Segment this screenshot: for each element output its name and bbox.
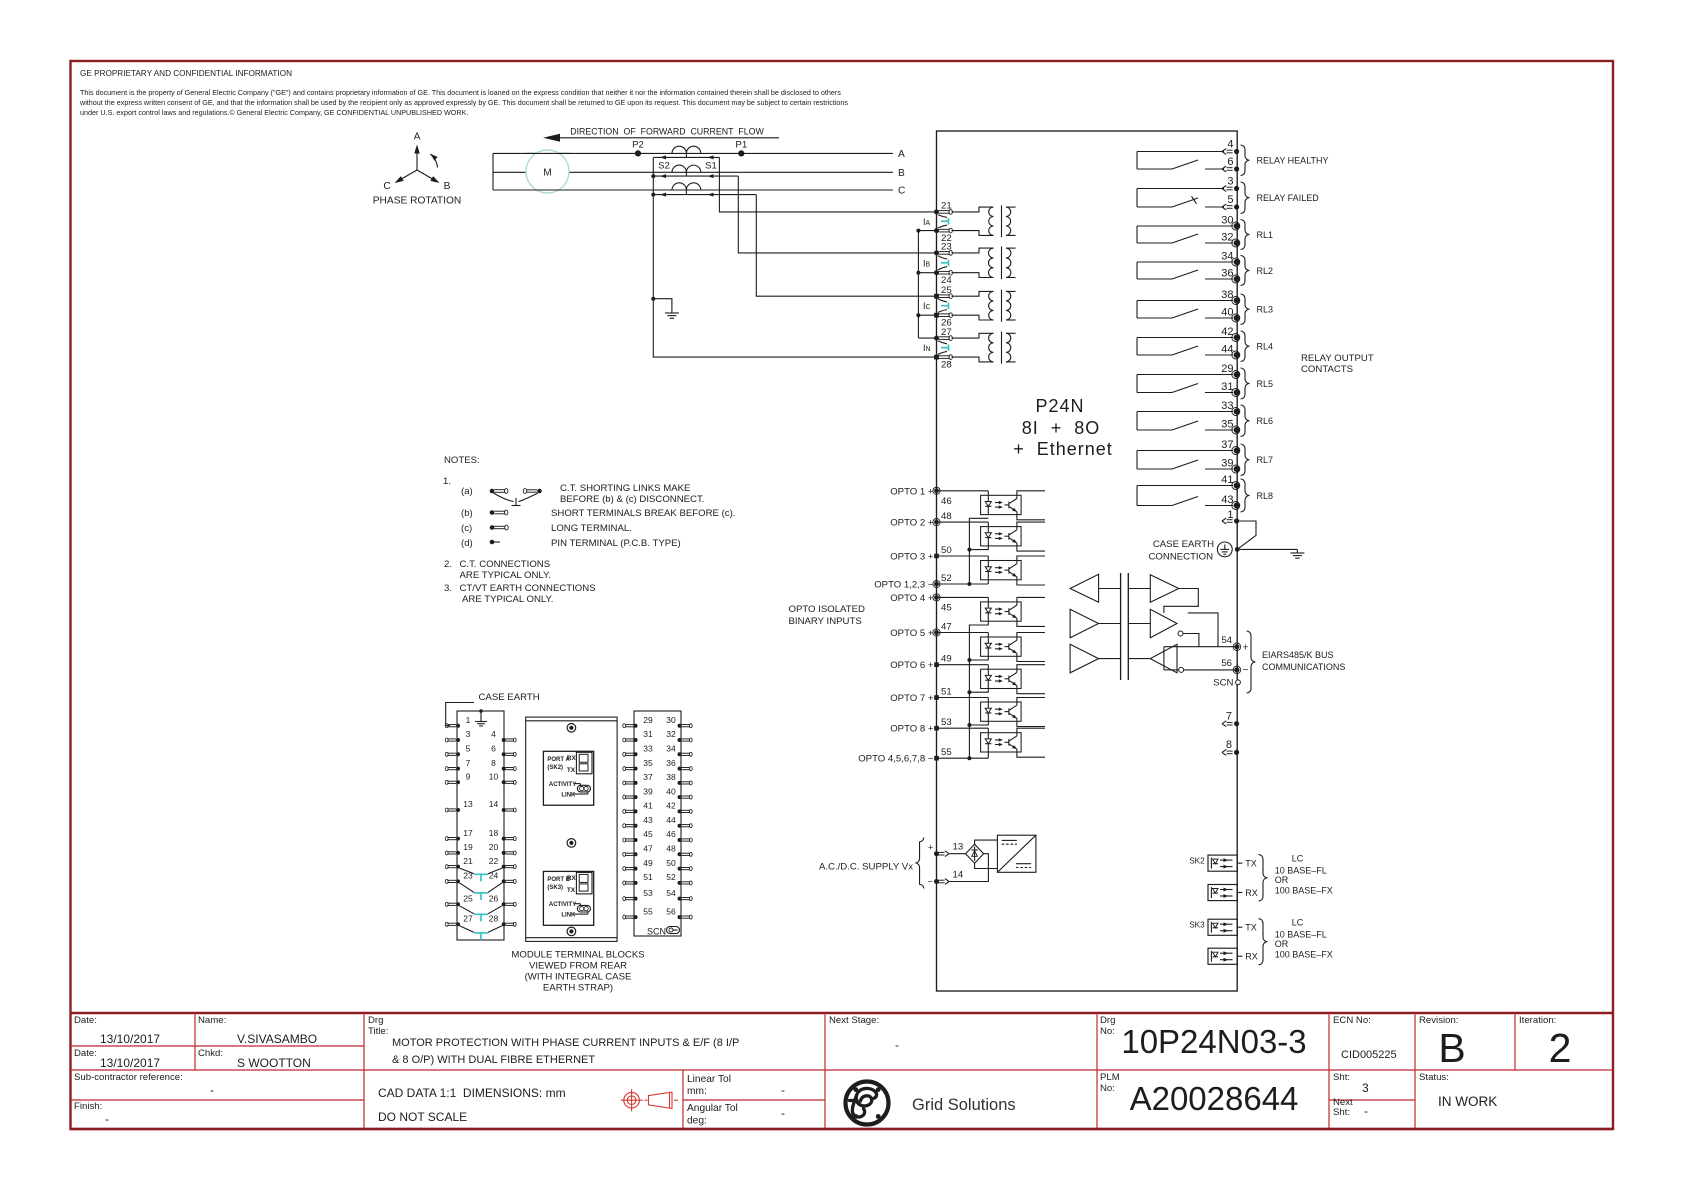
svg-text:36: 36 — [1221, 268, 1233, 280]
svg-text:No:: No: — [1100, 1083, 1115, 1094]
optocoupler OPTO2 — [981, 522, 1022, 546]
svg-text:25: 25 — [941, 285, 952, 296]
svg-text:DIRECTION OF FORWARD CURREN: DIRECTION OF FORWARD CURRENT FLOW — [570, 127, 764, 137]
svg-text:6: 6 — [1227, 156, 1233, 168]
svg-text:-: - — [781, 1106, 785, 1120]
svg-text:53: 53 — [941, 717, 952, 728]
svg-text:RELAY HEALTHY: RELAY HEALTHY — [1257, 156, 1329, 166]
svg-text:MOTOR PROTECTION WITH PHASE CU: MOTOR PROTECTION WITH PHASE CURRENT INPU… — [392, 1037, 739, 1049]
svg-text:55: 55 — [941, 747, 952, 758]
svg-text:CT/VT EARTH CONNECTIONS: CT/VT EARTH CONNECTIONS — [460, 583, 596, 594]
svg-text:Date:: Date: — [74, 1015, 97, 1026]
SK3 brace — [1259, 919, 1268, 965]
case earth strap wire — [446, 703, 474, 726]
svg-text:100 BASE–FX: 100 BASE–FX — [1275, 885, 1333, 895]
svg-text:18: 18 — [489, 828, 499, 838]
svg-text:Status:: Status: — [1419, 1072, 1449, 1083]
svg-text:-: - — [781, 1083, 785, 1097]
phase bus left riser — [492, 153, 494, 190]
block terminal 39/40 — [623, 786, 692, 799]
svg-text:OR: OR — [1275, 939, 1289, 949]
svg-text:26: 26 — [489, 894, 499, 904]
svg-text:3: 3 — [466, 729, 471, 739]
svg-text:1: 1 — [466, 715, 471, 725]
svg-text:Chkd:: Chkd: — [198, 1048, 223, 1059]
opto group 1 cathode bus — [937, 518, 989, 586]
terminal 23 — [934, 242, 952, 256]
svg-text:SK2: SK2 — [1189, 857, 1205, 866]
svg-text:49: 49 — [941, 654, 952, 665]
svg-text:A20028644: A20028644 — [1130, 1080, 1299, 1117]
relay contact RL5 terminals 29/31 — [1137, 363, 1273, 399]
svg-text:40: 40 — [666, 786, 676, 796]
wire 14 to bridge — [950, 854, 989, 882]
optocoupler OPTO8 — [981, 728, 1022, 752]
CT B secondary wire — [653, 175, 738, 177]
svg-text:CID005225: CID005225 — [1341, 1049, 1397, 1061]
svg-text:41: 41 — [1221, 474, 1233, 486]
terminal 46 (OPTO 1 +) — [890, 486, 951, 507]
svg-text:14: 14 — [489, 799, 499, 809]
svg-text:34: 34 — [666, 744, 676, 754]
svg-text:41: 41 — [643, 801, 653, 811]
svg-text:RL7: RL7 — [1257, 455, 1274, 465]
svg-text:C: C — [898, 186, 905, 197]
svg-text:LINK: LINK — [561, 912, 576, 918]
terminal 54 — [1234, 644, 1239, 649]
junction S2-B — [651, 174, 655, 178]
svg-text:Name:: Name: — [198, 1015, 226, 1026]
optocoupler OPTO4 — [981, 597, 1022, 621]
input transformer IA — [952, 205, 1016, 237]
svg-text:No:: No: — [1100, 1026, 1115, 1037]
wire bridge+ to psu — [975, 840, 998, 844]
svg-text:28: 28 — [941, 360, 952, 371]
svg-text:3.: 3. — [444, 583, 452, 594]
svg-text:OPTO ISOLATED: OPTO ISOLATED — [789, 604, 865, 615]
terminal 13 — [934, 842, 963, 857]
svg-text:ECN No:: ECN No: — [1333, 1015, 1371, 1026]
wire S1-A to terminal 21 — [719, 157, 936, 212]
residual wire bus (22-24-26-27) — [917, 231, 919, 339]
svg-text:54: 54 — [1221, 635, 1232, 646]
junction earth tap — [651, 297, 655, 301]
svg-text:(WITH INTEGRAL CASE: (WITH INTEGRAL CASE — [525, 972, 632, 983]
wire S2 common bus to terminal 28 — [653, 157, 936, 357]
svg-text:Drg: Drg — [1100, 1015, 1115, 1026]
svg-text:OPTO 2 +: OPTO 2 + — [890, 518, 934, 529]
junction S2-C — [651, 193, 655, 197]
svg-text:50: 50 — [941, 545, 952, 556]
svg-text:RELAY FAILED: RELAY FAILED — [1257, 193, 1320, 203]
input transformer IC — [952, 290, 1016, 322]
svg-text:RL1: RL1 — [1257, 230, 1274, 240]
block terminal 53/54 — [623, 888, 692, 901]
wire OPTO8 anode — [937, 727, 989, 729]
svg-text:TX: TX — [567, 887, 576, 894]
phase line B — [493, 171, 893, 173]
svg-text:19: 19 — [463, 842, 473, 852]
wire row1 — [1099, 588, 1121, 590]
svg-text:RL4: RL4 — [1257, 342, 1274, 352]
relay contact RL8 terminals 41/43 — [1137, 474, 1273, 512]
terminal block earth strap — [479, 709, 483, 713]
panel screw — [567, 839, 576, 848]
direction of forward current flow arrow — [543, 127, 779, 142]
svg-text:55: 55 — [643, 906, 653, 916]
wire OPTO1 anode — [937, 490, 989, 492]
block terminal 29/30 — [623, 715, 692, 728]
svg-text:OPTO 4 +: OPTO 4 + — [890, 593, 934, 604]
svg-text:10 BASE–FL: 10 BASE–FL — [1275, 865, 1327, 875]
svg-text:46: 46 — [941, 496, 952, 507]
wire OPTO3 anode — [937, 555, 989, 557]
svg-text:A: A — [898, 149, 905, 160]
svg-text:& 8 O/P) WITH DUAL FIBRE ETHER: & 8 O/P) WITH DUAL FIBRE ETHERNET — [392, 1054, 595, 1066]
svg-text:RL6: RL6 — [1257, 416, 1274, 426]
SK3 media label — [1275, 917, 1333, 959]
junction 22 — [916, 229, 920, 233]
svg-text:Drg: Drg — [368, 1015, 383, 1026]
svg-text:RL5: RL5 — [1257, 379, 1274, 389]
note (d) symbol — [461, 538, 681, 549]
svg-text:CONTACTS: CONTACTS — [1301, 364, 1353, 375]
panel screw — [567, 927, 576, 936]
buffer U-F — [1150, 644, 1177, 673]
relay contact RL3 terminals 38/40 — [1137, 289, 1273, 325]
terminal 53 (OPTO 8 +) — [890, 717, 951, 735]
opto group 2 cathode bus — [937, 621, 989, 760]
svg-text:OPTO 6 +: OPTO 6 + — [890, 660, 934, 671]
svg-text:EARTH STRAP): EARTH STRAP) — [543, 983, 613, 994]
svg-text:P24N: P24N — [1035, 396, 1084, 416]
case earth connection symbol — [1149, 539, 1233, 563]
svg-text:SCN: SCN — [1213, 678, 1233, 689]
fibre port SK2 RX — [1208, 885, 1258, 901]
svg-text:SK3: SK3 — [1189, 921, 1205, 930]
svg-text:44: 44 — [666, 815, 676, 825]
svg-text:CONNECTION: CONNECTION — [1149, 552, 1214, 563]
buffer U-E — [1150, 609, 1177, 638]
svg-text:NOTES:: NOTES: — [444, 455, 480, 466]
isolation barrier — [1120, 573, 1122, 680]
optocoupler OPTO5 — [981, 633, 1022, 657]
svg-text:B: B — [898, 168, 905, 179]
svg-text:36: 36 — [666, 758, 676, 768]
panel screw — [567, 724, 576, 733]
svg-text:Angular Tol: Angular Tol — [687, 1103, 738, 1114]
svg-text:P1: P1 — [735, 140, 747, 151]
earth wire from case — [1237, 548, 1297, 550]
relay contact RL6 terminals 33/35 — [1137, 400, 1273, 437]
block terminal 49/50 — [623, 858, 692, 871]
svg-text:RX: RX — [567, 875, 577, 882]
GE proprietary note — [79, 69, 848, 117]
svg-text:CASE EARTH: CASE EARTH — [1153, 539, 1214, 550]
svg-text:RL3: RL3 — [1257, 305, 1274, 315]
terminal 27 — [934, 327, 952, 341]
svg-text:(a): (a) — [461, 486, 473, 497]
block terminal 51/52 — [623, 872, 692, 885]
svg-text:48: 48 — [941, 511, 952, 522]
block terminal 33/34 — [623, 744, 692, 757]
svg-text:7: 7 — [466, 758, 471, 768]
terminal 8 — [1222, 739, 1239, 755]
svg-text:10P24N03-3: 10P24N03-3 — [1121, 1023, 1306, 1060]
svg-text:29: 29 — [1221, 363, 1233, 375]
block terminal 19/20 — [445, 842, 516, 855]
wire OPTO4 anode — [937, 596, 989, 598]
shorting link IB — [938, 256, 949, 270]
svg-text:29: 29 — [643, 715, 653, 725]
svg-text:ACTIVITY: ACTIVITY — [549, 902, 576, 908]
svg-text:TX: TX — [1245, 923, 1257, 933]
relay contact RL1 terminals 30/32 — [1137, 215, 1273, 250]
svg-text:deg:: deg: — [687, 1116, 707, 1127]
svg-text:RX: RX — [1245, 888, 1258, 898]
RS485 brace — [1247, 631, 1256, 693]
wire bridge- to psu — [975, 863, 998, 868]
svg-text:13: 13 — [953, 842, 964, 853]
svg-text:3: 3 — [1227, 176, 1233, 188]
svg-text:22: 22 — [489, 856, 499, 866]
terminal SCN — [1236, 680, 1241, 685]
svg-text:33: 33 — [643, 744, 653, 754]
relay contact RELAY HEALTHY terminals 4/6 — [1137, 139, 1329, 176]
block terminal 1 — [445, 715, 470, 728]
block terminal 13/14 — [445, 799, 516, 812]
svg-text:56: 56 — [666, 906, 676, 916]
svg-text:32: 32 — [1221, 232, 1233, 244]
svg-text:ACTIVITY: ACTIVITY — [549, 782, 576, 788]
svg-text:Next Stage:: Next Stage: — [829, 1015, 879, 1026]
svg-text:ARE TYPICAL ONLY.: ARE TYPICAL ONLY. — [460, 570, 551, 581]
svg-text:Title:: Title: — [368, 1026, 388, 1037]
title block — [71, 1013, 1614, 1129]
svg-text:LINK: LINK — [561, 792, 576, 798]
svg-text:48: 48 — [666, 844, 676, 854]
optocoupler OPTO7 — [981, 698, 1022, 722]
svg-text:This document is the property: This document is the property of General… — [80, 88, 841, 97]
block terminal 55/56 — [623, 906, 692, 919]
block shorting link — [460, 906, 503, 922]
svg-text:-: - — [210, 1083, 214, 1097]
right terminal block — [634, 711, 681, 936]
CT phase C — [672, 183, 701, 190]
svg-text:DO NOT SCALE: DO NOT SCALE — [378, 1110, 467, 1124]
svg-text:SCN: SCN — [647, 927, 666, 937]
svg-text:RL2: RL2 — [1257, 266, 1274, 276]
terminal 14 — [934, 869, 964, 884]
svg-text:(c): (c) — [461, 523, 472, 534]
svg-text:LC: LC — [1292, 917, 1304, 927]
block terminal 31/32 — [623, 729, 692, 742]
shorting link IN — [938, 341, 949, 354]
svg-text:-: - — [1364, 1104, 1368, 1118]
CT A secondary wire — [653, 156, 719, 158]
svg-text:+ Ethernet: + Ethernet — [1013, 439, 1113, 459]
note (b) symbol — [461, 508, 735, 519]
svg-text:35: 35 — [1221, 419, 1233, 431]
svg-text:Sub-contractor reference:: Sub-contractor reference: — [74, 1072, 183, 1083]
svg-text:9: 9 — [466, 772, 471, 782]
svg-text:38: 38 — [666, 772, 676, 782]
PORT B (SK3) — [543, 871, 593, 925]
phase line A — [493, 152, 893, 154]
svg-text:23: 23 — [463, 871, 473, 881]
wire S1-B to terminal 23 — [738, 176, 936, 253]
svg-text:53: 53 — [643, 888, 653, 898]
terminal 55 (OPTO 4,5,6,7,8 -) — [858, 747, 951, 765]
svg-text:PHASE ROTATION: PHASE ROTATION — [373, 196, 462, 207]
GE logo — [846, 1082, 1016, 1125]
svg-text:46: 46 — [666, 829, 676, 839]
CT earth connection — [653, 299, 672, 313]
svg-text:V.SIVASAMBO: V.SIVASAMBO — [237, 1032, 317, 1046]
svg-text:10: 10 — [489, 772, 499, 782]
svg-text:OPTO 3 +: OPTO 3 + — [890, 552, 934, 563]
fibre port SK2 TX — [1189, 855, 1257, 871]
svg-text:LONG TERMINAL.: LONG TERMINAL. — [551, 523, 632, 534]
PORT A (SK2) — [543, 751, 593, 805]
ground — [1296, 549, 1298, 553]
buffer U-C — [1070, 644, 1099, 673]
SK2 brace — [1259, 855, 1268, 902]
block terminal 37/38 — [623, 772, 692, 785]
svg-text:42: 42 — [1221, 326, 1233, 338]
wire loop — [1188, 613, 1218, 647]
terminal 21 — [934, 201, 952, 215]
svg-text:OPTO 4,5,6,7,8 −: OPTO 4,5,6,7,8 − — [858, 754, 934, 765]
svg-text:47: 47 — [941, 622, 952, 633]
svg-text:30: 30 — [1221, 215, 1233, 227]
terminal 48 (OPTO 2 +) — [890, 511, 951, 529]
svg-text:Date:: Date: — [74, 1048, 97, 1059]
relay contact RL4 terminals 42/44 — [1137, 326, 1273, 362]
svg-text:Sht:: Sht: — [1333, 1072, 1350, 1083]
wire U-E out — [1183, 634, 1199, 647]
node P2 — [635, 150, 641, 156]
terminal 24 — [934, 270, 952, 286]
svg-text:4: 4 — [491, 729, 496, 739]
bridge rectifier — [966, 844, 984, 863]
terminal 49 (OPTO 6 +) — [890, 654, 951, 672]
wire S1-C to terminal 25 — [756, 195, 936, 297]
svg-text:GE PROPRIETARY AND CONFIDENTIA: GE PROPRIETARY AND CONFIDENTIAL INFORMAT… — [80, 69, 292, 78]
svg-text:37: 37 — [1221, 439, 1233, 451]
svg-text:OPTO 1,2,3 −: OPTO 1,2,3 − — [874, 580, 934, 591]
svg-text:38: 38 — [1221, 289, 1233, 301]
svg-text:27: 27 — [463, 914, 473, 924]
svg-text:13: 13 — [463, 799, 473, 809]
svg-text:(SK3): (SK3) — [547, 885, 563, 891]
svg-text:47: 47 — [643, 844, 653, 854]
relay model label P24N 8I + 8O + Ethernet — [1013, 396, 1113, 459]
svg-text:RL8: RL8 — [1257, 491, 1274, 501]
svg-text:RX: RX — [567, 755, 577, 762]
svg-text:27: 27 — [941, 327, 952, 338]
svg-text:−: − — [1243, 665, 1249, 676]
terminal 47 (OPTO 5 +) — [890, 622, 951, 640]
wire 13 to bridge — [950, 853, 966, 855]
phase line C — [493, 189, 893, 191]
relay case P24N — [937, 131, 1238, 991]
svg-text:34: 34 — [1221, 251, 1233, 263]
svg-text:OPTO 8 +: OPTO 8 + — [890, 724, 934, 735]
fibre port SK3 TX — [1189, 919, 1257, 935]
shorting link IA — [938, 215, 949, 228]
wire to terminal 56 — [1164, 669, 1179, 671]
svg-text:43: 43 — [1221, 494, 1233, 506]
svg-text:45: 45 — [941, 602, 952, 613]
wire U-D out — [1164, 589, 1198, 613]
terminal 26 — [934, 313, 952, 329]
svg-text:30: 30 — [666, 715, 676, 725]
block terminal 27/28 — [445, 914, 516, 927]
svg-text:51: 51 — [941, 687, 952, 698]
block shorting link — [460, 883, 503, 900]
svg-text:50: 50 — [666, 858, 676, 868]
svg-text:7: 7 — [1226, 711, 1232, 723]
svg-text:8I + 8O: 8I + 8O — [1022, 418, 1101, 438]
junction 26 — [916, 313, 920, 317]
svg-text:TX: TX — [567, 767, 576, 774]
RS485 isolated transceiver — [1070, 573, 1237, 680]
block shorting link — [460, 926, 503, 940]
terminal 25 — [934, 285, 952, 299]
svg-text:S2: S2 — [658, 161, 670, 172]
svg-text:20: 20 — [489, 842, 499, 852]
svg-text:RX: RX — [1245, 952, 1258, 962]
svg-text:BINARY INPUTS: BINARY INPUTS — [789, 616, 862, 627]
svg-text:TX: TX — [1245, 859, 1257, 869]
block terminal 45/46 — [623, 829, 692, 842]
SCN indicator — [647, 927, 680, 937]
block terminal 7/8 — [445, 758, 516, 771]
wire OPTO2 anode — [937, 521, 989, 523]
svg-text:Linear Tol: Linear Tol — [687, 1074, 731, 1085]
relay contact RL7 terminals 37/39 — [1137, 439, 1273, 476]
note (a) symbol — [461, 483, 704, 506]
svg-text:A.C./D.C. SUPPLY Vx: A.C./D.C. SUPPLY Vx — [819, 862, 913, 873]
svg-text:OPTO 5 +: OPTO 5 + — [890, 628, 934, 639]
CT phase B — [672, 165, 701, 172]
svg-text:5: 5 — [466, 744, 471, 754]
svg-text:mm:: mm: — [687, 1086, 707, 1097]
svg-text:C.T. CONNECTIONS: C.T. CONNECTIONS — [460, 559, 551, 570]
svg-text:B: B — [444, 181, 451, 192]
junction case earth — [1235, 547, 1240, 552]
block terminal 3/4 — [445, 729, 516, 742]
svg-text:B: B — [1438, 1025, 1465, 1071]
wire OPTO6 anode — [937, 664, 989, 666]
svg-text:42: 42 — [666, 801, 676, 811]
terminal 22 — [934, 228, 952, 244]
svg-text:S WOOTTON: S WOOTTON — [237, 1056, 311, 1070]
block terminal 35/36 — [623, 758, 692, 771]
buffer U-D — [1150, 575, 1179, 602]
svg-text:4: 4 — [1227, 139, 1233, 151]
svg-text:without the express written co: without the express written consent of G… — [79, 98, 848, 107]
block terminal 41/42 — [623, 801, 692, 814]
comms module rear panel — [526, 717, 617, 941]
svg-text:PIN TERMINAL (P.C.B. TYPE): PIN TERMINAL (P.C.B. TYPE) — [551, 538, 681, 549]
optocoupler OPTO1 — [981, 491, 1022, 515]
wire OPTO7 anode — [937, 697, 989, 699]
svg-text:1.: 1. — [443, 476, 451, 487]
power supply unit — [997, 835, 1036, 872]
svg-text:33: 33 — [1221, 400, 1233, 412]
